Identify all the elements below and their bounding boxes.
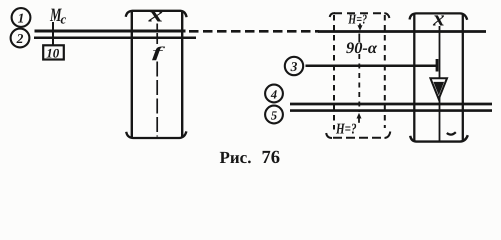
svg-text:5: 5 — [271, 108, 277, 122]
left column left wall — [131, 11, 133, 137]
left column bottom cap with end flares — [126, 131, 186, 138]
center dashed line of left column (lower part) — [156, 62, 158, 137]
up arrow from bottom H=? to rail — [358, 117, 360, 123]
down arrow from top H=? to rail — [359, 24, 361, 28]
tick below x — [156, 24, 158, 30]
center line of right column — [439, 26, 441, 141]
node 5 (circled label 5) — [265, 106, 283, 124]
svg-text:10: 10 — [46, 45, 60, 60]
svg-text:x: x — [432, 6, 445, 31]
paper background — [0, 0, 501, 175]
dashed column top cap — [334, 12, 385, 14]
dashed column bottom cap right flare — [385, 132, 391, 139]
box 10 — [43, 45, 64, 60]
wire rail 5 — [290, 109, 492, 112]
svg-text:4: 4 — [270, 87, 277, 101]
node 3 (circled label 3) — [285, 57, 303, 75]
dashed column center dashed line — [358, 34, 360, 43]
right column top cap with end flares — [410, 13, 468, 19]
node 4 (circled label 4) — [265, 85, 283, 103]
left column right wall — [181, 11, 183, 137]
wire rail 1 right (solid) — [318, 30, 486, 33]
liquid level marker triangle — [430, 78, 447, 99]
svg-text:90-α: 90-α — [346, 40, 378, 57]
wire rail 4 — [290, 103, 492, 106]
svg-text:2: 2 — [16, 31, 24, 46]
right column bottom cap with end flares — [410, 135, 468, 141]
svg-text:H=?: H=? — [348, 12, 368, 27]
svg-text:3: 3 — [290, 59, 298, 74]
T-bar end of wire 3 — [436, 59, 439, 72]
dashed wire rail 1 middle — [189, 30, 319, 33]
node 1 (circled label 1) — [12, 8, 31, 27]
center dashed line of left column (upper part) — [156, 33, 158, 44]
svg-text:1: 1 — [18, 11, 25, 26]
wire rail 2 left (line from node 2) — [34, 37, 196, 40]
dashed column bottom cap left flare — [326, 133, 332, 138]
dashed column left wall — [333, 15, 335, 130]
dashed column right wall — [384, 15, 386, 128]
svg-text:76: 76 — [262, 148, 281, 168]
right column left wall — [413, 14, 415, 142]
dashed column top cap left flare — [330, 13, 335, 17]
svg-text:Рис.: Рис. — [220, 148, 252, 167]
dashed column bottom cap — [333, 137, 384, 139]
wire rail 1 left (line from node 1) — [35, 30, 186, 33]
svg-text:c: c — [61, 12, 67, 27]
left column top cap with end flares — [126, 11, 187, 17]
minus mark in right column — [447, 132, 456, 134]
wire stem from Mc to box 10 — [52, 22, 54, 46]
node 2 (circled label 2) — [11, 29, 30, 48]
svg-text:H=?: H=? — [335, 121, 356, 137]
wire from node 3 — [306, 64, 438, 67]
svg-text:x: x — [147, 2, 163, 27]
dashed column top cap right flare — [384, 13, 389, 18]
right column right wall — [462, 14, 464, 142]
